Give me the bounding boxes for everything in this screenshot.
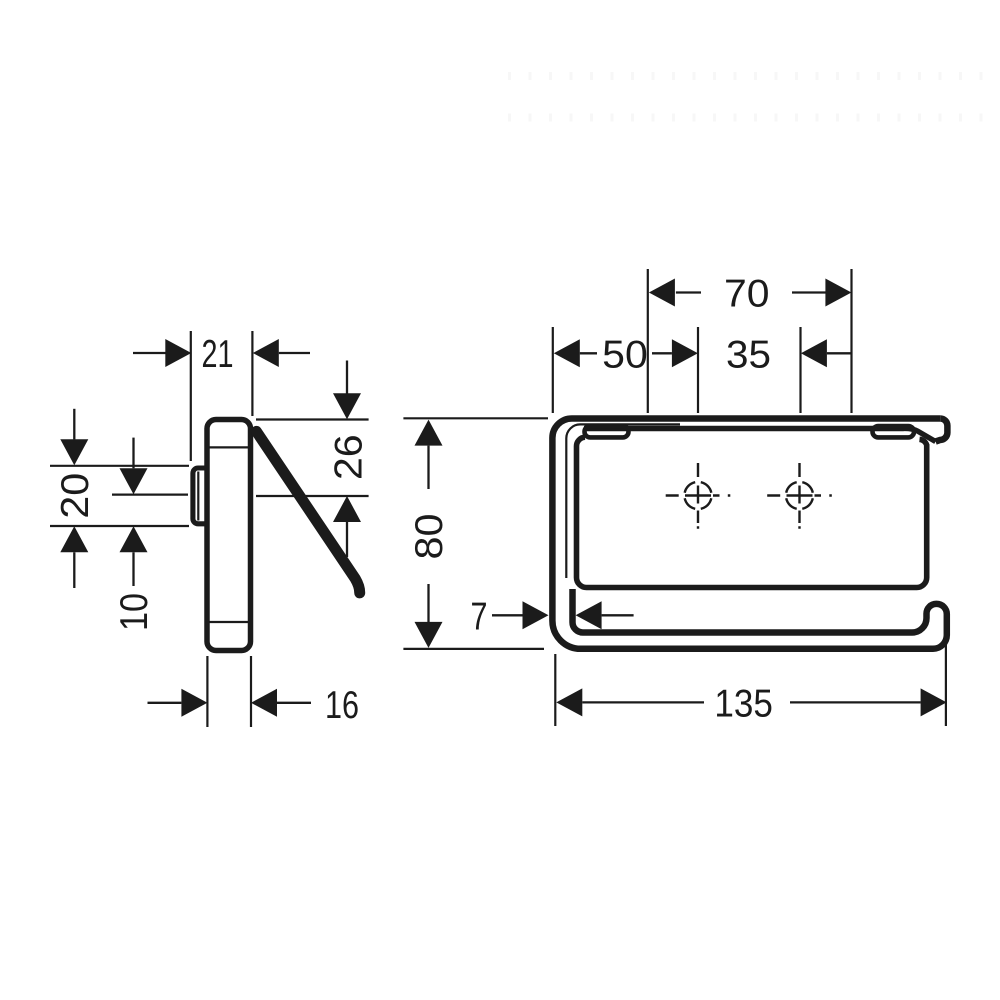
- front view: cover right curl corner: [936, 419, 948, 442]
- svg-text:10: 10: [113, 593, 156, 631]
- dim 21: right leader line: [279, 352, 310, 354]
- left view: plate bottom seam line: [210, 621, 249, 623]
- dim 21: left-pointing arrow: [253, 339, 279, 367]
- dim 70: right leader line: [792, 291, 826, 293]
- dim 20: up arrow: [60, 526, 88, 552]
- front view: left clip tab: [585, 426, 629, 437]
- dim 16: right-pointing arrow: [181, 689, 207, 717]
- dim 35: extension line (second screw axis): [799, 327, 801, 413]
- dim 26: bottom extension line (arm ref): [256, 495, 369, 497]
- dim 20: top extension line (bracket top): [50, 465, 189, 467]
- dim 135: right-pointing arrow: [921, 688, 947, 716]
- dim 135: left leader line: [582, 701, 704, 703]
- dim 26: up arrow: [333, 496, 361, 522]
- dim 21: left leader line: [133, 352, 166, 354]
- dim 50: right extension line (first screw axis): [697, 327, 699, 413]
- dim 80: lower leader line: [427, 584, 429, 622]
- dim 80: up arrow: [415, 420, 443, 446]
- svg-text:20: 20: [54, 473, 97, 519]
- faint background dash row 2: [508, 114, 996, 122]
- faint background dash row 1: [508, 72, 996, 80]
- front view: inner wall line and cover seam: [566, 424, 680, 578]
- left view: paper roll arm: [256, 431, 359, 593]
- front view: face plate: [576, 437, 926, 587]
- dim 20: down arrow: [60, 439, 88, 465]
- dim 80: upper leader line: [427, 446, 429, 489]
- svg-text:135: 135: [714, 682, 773, 725]
- left view: plate top seam line: [210, 446, 249, 448]
- svg-text:16: 16: [325, 684, 359, 727]
- dim 70: left leader line: [676, 291, 701, 293]
- dim 35: right leader line: [827, 352, 852, 354]
- dim 20: bottom extension line (bracket bottom): [50, 525, 189, 527]
- dim 21: left extension line: [190, 331, 192, 461]
- dim 10: up arrow: [120, 526, 148, 552]
- dim 26: upper leader line: [346, 361, 348, 394]
- dim 70: left extension line: [647, 269, 649, 413]
- dim 16: right leader line: [277, 702, 311, 704]
- dim 70: right extension line: [850, 269, 852, 413]
- dim 16: left leader line: [148, 702, 182, 704]
- dim 50: left-pointing arrow: [554, 339, 580, 367]
- dim 10: mid extension line (bracket centre): [112, 494, 188, 496]
- dim 70: left-pointing arrow: [649, 279, 675, 307]
- front view: outer body outline (cover top, wall side, bottom bar, right hook): [552, 419, 946, 649]
- dim 16: right extension line: [250, 656, 252, 727]
- svg-text:26: 26: [328, 434, 371, 480]
- dim 20: upper leader line: [73, 409, 75, 440]
- dim 7: right leader line: [602, 614, 634, 616]
- svg-text:80: 80: [408, 514, 451, 560]
- dim 10: lower leader line: [132, 552, 134, 586]
- svg-text:50: 50: [602, 333, 648, 376]
- dim 70: right-pointing arrow: [825, 279, 851, 307]
- dim 50: right-pointing arrow: [672, 339, 698, 367]
- left view: wall plate side profile: [207, 420, 251, 651]
- dim 21: right-pointing arrow: [165, 339, 191, 367]
- svg-text:70: 70: [724, 273, 770, 316]
- dim 135: left extension line: [554, 654, 556, 726]
- dim 50: right leader line: [652, 352, 672, 354]
- dim 26: top extension line (plate top): [256, 418, 369, 420]
- dim 80: top extension line: [403, 417, 548, 419]
- left view: wall mount bracket: [193, 468, 207, 524]
- left view: bracket inner edge: [197, 472, 199, 521]
- dim 10: down arrow: [120, 468, 148, 494]
- svg-text:7: 7: [471, 596, 488, 639]
- dim 20: lower leader line: [73, 552, 75, 588]
- dim 35: left-pointing arrow at screw axis: [801, 339, 827, 367]
- dim 10: upper leader line: [132, 438, 134, 469]
- dim 135: right extension line: [945, 640, 947, 726]
- dim 26: down arrow: [333, 393, 361, 419]
- dim 16: left extension line: [206, 656, 208, 727]
- dim 16: left-pointing arrow: [251, 689, 277, 717]
- dim 26: lower leader line: [346, 522, 348, 557]
- dim 80: down arrow: [415, 622, 443, 648]
- dim 50: left extension line: [552, 327, 554, 413]
- dim 7: right-pointing arrow: [523, 601, 549, 629]
- screw hole marker left: [685, 482, 712, 509]
- front view: right clip tab: [873, 426, 915, 437]
- screw hole marker right: [786, 482, 813, 509]
- svg-text:21: 21: [202, 333, 234, 376]
- dim 80: bottom extension line: [403, 648, 544, 650]
- dim 7: leader line: [492, 614, 523, 616]
- front view: cover mid edge line and curl junction: [584, 428, 936, 441]
- dim 21: right extension line: [251, 331, 253, 416]
- svg-text:35: 35: [726, 333, 771, 376]
- dim 135: right leader line: [790, 701, 921, 703]
- dim 50: left leader line: [580, 352, 597, 354]
- dim 7: left-pointing arrow: [576, 601, 602, 629]
- dim 135: left-pointing arrow: [556, 688, 582, 716]
